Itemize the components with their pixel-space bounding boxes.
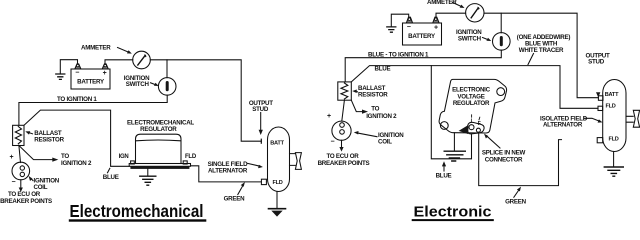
label SPLICE IN NEW CONNECTOR + leader bbox=[482, 134, 526, 164]
svg-text:REGULATOR: REGULATOR bbox=[140, 126, 177, 133]
label OUTPUT STUD (right) bbox=[586, 52, 610, 65]
svg-text:FLD: FLD bbox=[605, 104, 615, 110]
labels IGN / FLD on base bbox=[119, 154, 197, 160]
wire blue (ballast to regulator IGN) bbox=[24, 110, 129, 166]
svg-text:F: F bbox=[478, 121, 481, 127]
wire bus: ammeter to output stud corner bbox=[150, 60, 261, 141]
svg-text:Electronic: Electronic bbox=[414, 205, 492, 221]
svg-text:STUD: STUD bbox=[588, 59, 605, 66]
svg-text:IGNITION 2: IGNITION 2 bbox=[366, 113, 397, 120]
svg-text:−: − bbox=[75, 70, 79, 77]
wire green (pin F loop to alternator lower FLD) bbox=[479, 134, 562, 186]
svg-text:+: + bbox=[103, 70, 107, 77]
ground G1 (battery ground, left panel) bbox=[56, 60, 78, 80]
svg-text:ALTERNATOR: ALTERNATOR bbox=[543, 122, 583, 129]
svg-text:IGN: IGN bbox=[119, 154, 129, 160]
connector J1 (oval with pins I and F) bbox=[467, 115, 484, 134]
label BALLAST RESISTOR + leader bbox=[352, 85, 388, 99]
label GREEN + leader (right) bbox=[505, 187, 527, 206]
svg-text:FLD: FLD bbox=[272, 180, 282, 186]
terminal FLD stud lower (right alternator) bbox=[597, 138, 603, 143]
svg-text:COIL: COIL bbox=[378, 139, 392, 146]
ignition switch S1 bbox=[158, 78, 176, 96]
label AMMETER + leader bbox=[81, 45, 132, 54]
battery B1 bbox=[71, 64, 110, 89]
svg-text:REGULATOR: REGULATOR bbox=[453, 100, 490, 107]
label ISOLATED FIELD ALTERNATOR + leader bbox=[540, 115, 602, 128]
regulator U1 cover (electromechanical) bbox=[136, 134, 182, 163]
title Electronic bbox=[412, 205, 494, 222]
svg-text:BATTERY: BATTERY bbox=[77, 79, 105, 86]
label IGNITION COIL + leader bbox=[29, 176, 60, 191]
svg-text:GREEN: GREEN bbox=[224, 196, 246, 203]
svg-text:RESISTOR: RESISTOR bbox=[358, 92, 388, 99]
wire BLUE TO IGNITION 1 (switch to ballast) bbox=[345, 50, 501, 82]
svg-text:CONNECTOR: CONNECTOR bbox=[485, 156, 523, 163]
wire battery+ to ammeter bbox=[436, 13, 466, 17]
svg-text:+: + bbox=[10, 154, 14, 161]
ignition coil T1 bbox=[10, 154, 30, 192]
label SINGLE FIELD ALTERNATOR + leader bbox=[208, 161, 263, 175]
wire bus: ammeter right to alternator BAT bbox=[484, 13, 598, 98]
svg-text:−: − bbox=[331, 139, 335, 146]
ammeter M2 bbox=[466, 4, 484, 22]
alternator A2 body (isolated field) bbox=[603, 80, 626, 152]
pulley P2 (right alternator) bbox=[626, 110, 640, 127]
label AMMETER + leader bbox=[427, 0, 465, 8]
terminal BAT stud (right alternator) bbox=[598, 96, 603, 101]
label GREEN + leader bbox=[224, 182, 246, 203]
svg-text:BLUE - TO IGNITION 1: BLUE - TO IGNITION 1 bbox=[368, 52, 429, 59]
wire battery+ to ammeter bbox=[105, 60, 133, 65]
pulley P1 (left alternator) bbox=[290, 153, 302, 170]
svg-text:BATTERY: BATTERY bbox=[408, 33, 436, 40]
wire green (regulator FLD to alternator FLD) bbox=[191, 166, 262, 182]
ignition switch S2 bbox=[493, 33, 511, 51]
svg-text:+: + bbox=[434, 24, 438, 31]
svg-text:Electromechanical: Electromechanical bbox=[70, 201, 204, 221]
label TO ECU OR BREAKER POINTS (right) bbox=[318, 153, 370, 167]
wire/arrow TO IGNITION 2 bbox=[19, 146, 58, 162]
arrow at BAT stud (right) bbox=[596, 92, 600, 97]
ground G4 (battery ground, right panel) bbox=[387, 14, 409, 32]
wire bus to ignition switch bbox=[166, 60, 168, 78]
label BLUE + tick bbox=[103, 168, 119, 181]
svg-text:SWITCH: SWITCH bbox=[458, 36, 482, 43]
label IGNITION COIL + leader bbox=[354, 131, 404, 146]
svg-text:WHITE TRACER: WHITE TRACER bbox=[519, 47, 564, 54]
wire ballast to coil (right) bbox=[342, 100, 345, 121]
svg-text:SWITCH: SWITCH bbox=[126, 81, 150, 88]
svg-text:TO ECU OR: TO ECU OR bbox=[8, 191, 41, 198]
svg-text:TO: TO bbox=[371, 106, 379, 113]
battery B2 bbox=[403, 17, 442, 45]
svg-text:BLUE: BLUE bbox=[436, 172, 452, 179]
label BLUE + up arrow (under regulator box) bbox=[436, 161, 452, 179]
ignition coil T2 bbox=[327, 113, 351, 152]
resistor R2 ballast bbox=[338, 82, 352, 100]
ground G5 (regulator case ground) bbox=[444, 133, 465, 161]
ammeter M1 bbox=[133, 51, 151, 69]
ground G6 (right alternator) bbox=[604, 152, 623, 177]
svg-text:−: − bbox=[12, 179, 16, 186]
wire bus to ignition switch bbox=[500, 13, 502, 33]
terminal FLD stud (left alternator) bbox=[261, 179, 266, 184]
alternator A1 body (single field) bbox=[268, 127, 290, 192]
svg-text:IGNITION 2: IGNITION 2 bbox=[61, 160, 92, 167]
svg-text:BATT: BATT bbox=[270, 140, 284, 146]
label IGNITION SWITCH + leader bbox=[124, 75, 159, 88]
ground G3 (left alternator, bar + solid triangle) bbox=[269, 192, 286, 217]
ground G2 (under regulator base) bbox=[140, 169, 156, 185]
label (ONE ADDED WIRE) BLUE WITH WHITE TRACER + leader bbox=[517, 34, 571, 65]
svg-text:FLD: FLD bbox=[608, 136, 618, 142]
wire blue added wire (ballast diag to alternator FLD) bbox=[351, 66, 598, 109]
label ELECTRONIC VOLTAGE REGULATOR bbox=[452, 87, 491, 107]
label TO IGNITION 2 (right) bbox=[366, 106, 397, 120]
svg-text:FLD: FLD bbox=[185, 154, 197, 160]
label ELECTROMECHANICAL REGULATOR bbox=[127, 119, 194, 133]
wire TO IGNITION 1 (switch to ballast) bbox=[19, 95, 167, 125]
svg-text:RESISTOR: RESISTOR bbox=[34, 137, 64, 144]
label IGNITION SWITCH + leader bbox=[456, 29, 491, 42]
svg-text:AMMETER: AMMETER bbox=[81, 45, 111, 52]
svg-text:ALTERNATOR: ALTERNATOR bbox=[208, 167, 248, 174]
label BALLAST RESISTOR + leader bbox=[25, 130, 64, 144]
svg-text:BLUE: BLUE bbox=[103, 174, 119, 181]
title Electromechanical bbox=[69, 201, 207, 222]
svg-text:BREAKER POINTS: BREAKER POINTS bbox=[318, 160, 370, 167]
resistor R1 ballast bbox=[13, 125, 24, 145]
wire ballast to coil bbox=[19, 146, 21, 163]
svg-text:+: + bbox=[327, 113, 331, 120]
svg-text:TO ECU OR: TO ECU OR bbox=[326, 153, 359, 160]
svg-text:BLUE: BLUE bbox=[375, 66, 391, 73]
svg-text:TO IGNITION 1: TO IGNITION 1 bbox=[57, 96, 97, 103]
regulator U1 base plate bbox=[129, 161, 190, 169]
splice wedge (solid) bbox=[459, 125, 469, 134]
wire/arrow TO IGNITION 2 (right) bbox=[351, 100, 368, 114]
wire blue (regulator harness: left edge + bottom to pin I) bbox=[431, 66, 471, 159]
svg-text:GREEN: GREEN bbox=[505, 198, 527, 205]
svg-text:BREAKER POINTS: BREAKER POINTS bbox=[0, 198, 52, 205]
label TO ECU OR BREAKER POINTS bbox=[0, 191, 52, 205]
terminal FLD stud upper (right alternator) bbox=[598, 106, 603, 110]
svg-text:−: − bbox=[407, 24, 411, 31]
regulator U2 body (electronic, tilted with ears) bbox=[439, 79, 507, 133]
label TO IGNITION 2 bbox=[61, 153, 92, 167]
label OUTPUT STUD + leader arrow bbox=[249, 100, 273, 135]
svg-text:BATT: BATT bbox=[605, 92, 619, 98]
svg-text:STUD: STUD bbox=[252, 106, 269, 113]
terminal BAT stud (left alternator) bbox=[260, 139, 262, 143]
